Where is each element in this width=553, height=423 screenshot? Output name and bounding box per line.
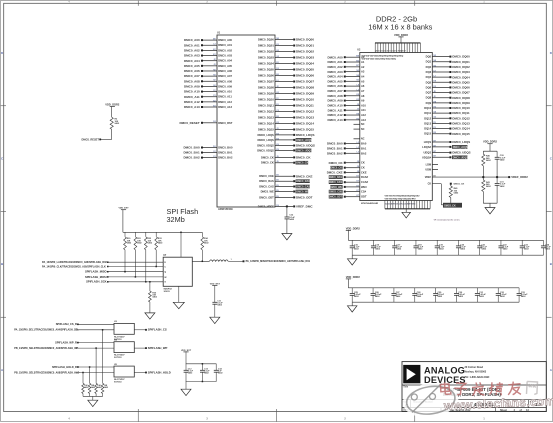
power flag VDD_DDR2 for cap row xyxy=(346,226,361,240)
wire cap row top rail xyxy=(348,287,519,289)
wire DMC0_A03 xyxy=(184,54,233,58)
svg-text:G3: G3 xyxy=(213,85,216,87)
svg-text:DMC0_A08: DMC0_A08 xyxy=(218,79,232,83)
wire DMC0_A02 xyxy=(184,48,233,52)
svg-text:LDQS: LDQS xyxy=(424,140,432,144)
svg-text:A9: A9 xyxy=(433,174,435,177)
svg-text:DMC0_LDQS: DMC0_LDQS xyxy=(258,133,275,137)
svg-text:VREF: VREF xyxy=(425,176,432,179)
capacitor C24 0.1uF xyxy=(541,240,551,255)
svg-text:DMC0_DQ08: DMC0_DQ08 xyxy=(452,96,470,100)
svg-text:DMC0_A11: DMC0_A11 xyxy=(328,108,343,112)
wire cap group bottom rail xyxy=(186,381,217,389)
svg-text:DMC0_A06: DMC0_A06 xyxy=(218,69,232,73)
svg-text:D3: D3 xyxy=(213,146,215,148)
svg-text:DMC0_CKE: DMC0_CKE xyxy=(327,171,343,175)
svg-text:K2: K2 xyxy=(213,49,215,51)
wire DMC0_A01 to U2 xyxy=(327,60,364,64)
svg-text:DQ12: DQ12 xyxy=(424,116,431,120)
svg-text:SOT353: SOT353 xyxy=(114,382,122,384)
svg-text:DMC0_DQ11: DMC0_DQ11 xyxy=(296,104,314,108)
svg-text:VREF_DMC: VREF_DMC xyxy=(296,205,313,209)
svg-text:DMC0_BA1: DMC0_BA1 xyxy=(327,147,343,151)
IC U5 buffer NL17SZ07 xyxy=(114,364,134,384)
node DMC0_CK# label xyxy=(443,203,462,208)
svg-text:DMC0_A10: DMC0_A10 xyxy=(327,104,342,108)
power flag VDD_DDR2 for reset pullup xyxy=(105,102,120,117)
wire DMC0_A12 xyxy=(184,100,233,104)
svg-text:VDD_DDR2: VDD_DDR2 xyxy=(394,33,409,37)
svg-text:F2: F2 xyxy=(276,98,278,100)
resistor R39 10K pulldown xyxy=(101,383,108,396)
wire VSS bar on U2 bottom xyxy=(385,201,430,213)
svg-text:DQ4: DQ4 xyxy=(426,75,432,79)
svg-text:F3: F3 xyxy=(213,95,215,97)
svg-text:SPIFLASH_MISO: SPIFLASH_MISO xyxy=(85,270,107,274)
svg-text:BA0: BA0 xyxy=(361,142,367,146)
svg-text:L2: L2 xyxy=(357,147,359,149)
capacitor C31 0.01uF xyxy=(475,288,487,302)
svg-text:DMC0_DQ05: DMC0_DQ05 xyxy=(452,80,470,84)
svg-text:DMC0_A06: DMC0_A06 xyxy=(327,84,342,88)
svg-text:DMC0_LDQS: DMC0_LDQS xyxy=(296,139,312,142)
wire DMC0_DQ05 xyxy=(258,68,314,72)
svg-text:20 Cotton Road: 20 Cotton Road xyxy=(465,366,484,369)
ground under C11 xyxy=(210,317,220,323)
svg-text:DMC0_BA2: DMC0_BA2 xyxy=(327,151,343,155)
svg-text:DMC0_A08: DMC0_A08 xyxy=(327,94,342,98)
svg-text:DMC0_RST: DMC0_RST xyxy=(218,121,233,125)
capacitor C19 0.1uF xyxy=(435,240,445,255)
wire DMC0_BA1 to U2 xyxy=(327,146,367,150)
svg-text:M7: M7 xyxy=(356,65,359,67)
svg-text:VDD_DDR2: VDD_DDR2 xyxy=(346,226,361,230)
svg-text:DMC0_A03: DMC0_A03 xyxy=(218,54,232,58)
svg-text:K3: K3 xyxy=(213,54,215,56)
wire DMC0_A00 to U2 xyxy=(327,55,364,59)
wire DMC0_LDQS xyxy=(258,133,315,137)
svg-text:N3: N3 xyxy=(434,65,436,67)
wire DMC0_DQ11 to U2 xyxy=(424,111,470,115)
svg-text:SPIFLASH_HOLD_R: SPIFLASH_HOLD_R xyxy=(52,365,77,369)
svg-text:K7: K7 xyxy=(356,176,358,178)
svg-text:DMC0_RAS: DMC0_RAS xyxy=(259,179,274,183)
ground under pulldowns xyxy=(88,400,98,406)
capacitor C23 0.1uF xyxy=(520,240,530,255)
svg-text:DMC0_BA2: DMC0_BA2 xyxy=(218,156,233,160)
svg-text:H3: H3 xyxy=(213,75,215,77)
svg-text:K8: K8 xyxy=(356,94,358,96)
wire SPIFLASH_MOSI xyxy=(85,275,167,279)
svg-text:J8: J8 xyxy=(357,166,359,168)
wire DMC0_DQ08 to U2 xyxy=(426,96,470,100)
svg-text:DMC0_A13: DMC0_A13 xyxy=(184,105,200,109)
svg-text:0402: 0402 xyxy=(104,386,108,389)
svg-text:SOIC8: SOIC8 xyxy=(164,291,171,293)
capacitor C29 0.01uF xyxy=(433,288,445,302)
wire DMC0_UDQS# xyxy=(257,148,312,152)
svg-text:J9: J9 xyxy=(276,156,278,158)
capacitor C16 0.1uF xyxy=(371,240,381,255)
svg-text:CS#: CS# xyxy=(361,190,367,194)
wire DMC0_A10 to U2 xyxy=(327,103,366,107)
svg-text:DMC0_DQ04: DMC0_DQ04 xyxy=(452,75,470,79)
svg-text:DMC0_UDQS: DMC0_UDQS xyxy=(257,148,274,152)
svg-text:NC: NC xyxy=(361,123,365,126)
svg-text:H2: H2 xyxy=(276,50,278,52)
capacitor C28 0.01uF xyxy=(412,288,424,302)
svg-text:DMC0_BA0: DMC0_BA0 xyxy=(184,146,201,150)
wire DMC0_DQ01 xyxy=(258,44,314,48)
svg-text:DMC0_A02: DMC0_A02 xyxy=(218,48,232,52)
svg-text:PA_15/SPI0_SEL1/TRACE01/SMC0_A: PA_15/SPI0_SEL1/TRACE01/SMC0_A04/SPIFLAS… xyxy=(14,329,79,332)
wire DMC0_A07 to U2 xyxy=(327,89,364,93)
capacitor C20 0.1uF xyxy=(456,240,466,255)
svg-text:DMC0_DQ03: DMC0_DQ03 xyxy=(452,70,470,74)
svg-text:A2: A2 xyxy=(361,65,365,69)
wire DMC0_CKE xyxy=(259,174,312,178)
svg-text:DMC0_UDQS: DMC0_UDQS xyxy=(452,151,470,155)
svg-text:DMC0_DQ14: DMC0_DQ14 xyxy=(452,127,470,131)
svg-text:N3: N3 xyxy=(356,80,358,82)
wire DMC0_DQ06 to U2 xyxy=(426,85,470,89)
ground under divider xyxy=(485,208,495,214)
svg-text:PB_15/SPI0_SEL3/TRACE05/SMC0_A: PB_15/SPI0_SEL3/TRACE05/SMC0_A08/SPIFLAS… xyxy=(14,371,79,374)
svg-text:DMC0_CKE: DMC0_CKE xyxy=(296,174,313,178)
svg-text:Title: Title xyxy=(403,386,408,389)
svg-text:A6: A6 xyxy=(361,84,365,88)
svg-text:E3: E3 xyxy=(213,105,215,107)
svg-text:DMC0_CK: DMC0_CK xyxy=(261,155,274,159)
svg-text:DQ7: DQ7 xyxy=(426,91,432,95)
wire DMC0_WE# xyxy=(261,190,310,194)
svg-text:DMC0_CK: DMC0_CK xyxy=(296,162,308,165)
svg-text:A13: A13 xyxy=(361,118,366,122)
svg-text:G2: G2 xyxy=(434,117,437,119)
svg-text:DMC0_CS0: DMC0_CS0 xyxy=(329,191,342,194)
svg-text:H8: H8 xyxy=(356,113,358,115)
svg-text:K7: K7 xyxy=(356,190,358,192)
svg-text:16M x 16 x 8 banks: 16M x 16 x 8 banks xyxy=(368,23,432,32)
svg-text:A9: A9 xyxy=(361,99,365,103)
svg-text:DMC0_DQ14: DMC0_DQ14 xyxy=(296,122,314,126)
wire divider top rail xyxy=(483,150,497,152)
svg-text:DMC0_DQ00: DMC0_DQ00 xyxy=(258,38,274,42)
svg-text:DMC0_WE: DMC0_WE xyxy=(330,186,342,189)
svg-text:DMC0_RESET: DMC0_RESET xyxy=(82,137,100,141)
wire SPIFLASH_D02 xyxy=(42,261,166,264)
svg-text:DMC0_DQ09: DMC0_DQ09 xyxy=(452,101,470,105)
wire DMC0_A12 to U2 xyxy=(327,113,366,117)
svg-text:PH: 1-800-ANALOGD: PH: 1-800-ANALOGD xyxy=(465,376,490,379)
svg-text:DMC0_A12: DMC0_A12 xyxy=(218,100,232,104)
watermark url www.elecfans.com xyxy=(443,394,553,413)
svg-text:DMC0_CK: DMC0_CK xyxy=(444,205,456,208)
wire pulldown bottom rail xyxy=(83,396,103,400)
wire SPIFLASH_SCK xyxy=(86,280,166,284)
wire DMC0_UDQS to U2 xyxy=(423,151,470,155)
svg-text:DMC0_RESET: DMC0_RESET xyxy=(180,121,200,125)
svg-text:DMC0_DQ02: DMC0_DQ02 xyxy=(296,50,314,54)
svg-text:PA_12/SPI0_MISO/TRACE04/SMC0_A: PA_12/SPI0_MISO/TRACE04/SMC0_A07/SPIFLAS… xyxy=(246,260,311,263)
svg-text:B2: B2 xyxy=(276,74,278,76)
svg-text:E9: E9 xyxy=(276,196,278,198)
ground under cap row xyxy=(347,306,357,312)
svg-text:DMC0_BA2: DMC0_BA2 xyxy=(184,156,201,160)
wire DMC0_ODT xyxy=(259,195,312,199)
svg-text:VDD_EXT: VDD_EXT xyxy=(118,208,129,210)
capacitor C30 0.1uF upper xyxy=(495,151,506,177)
note text xyxy=(434,218,461,221)
heading DDR2 - 2Gb xyxy=(368,14,432,31)
svg-text:DMC0_ODT: DMC0_ODT xyxy=(329,196,343,199)
svg-text:DMC0_DQ08: DMC0_DQ08 xyxy=(296,86,314,90)
ground under C12 xyxy=(282,234,292,240)
capacitor C26 0.01uF xyxy=(371,288,383,302)
resistor R40 240 upper xyxy=(482,151,492,177)
wire DMC0_DQ02 to U2 xyxy=(426,65,470,69)
svg-text:BA2: BA2 xyxy=(361,151,367,155)
svg-text:A10: A10 xyxy=(361,103,366,107)
wire DMC0_CK xyxy=(261,155,311,159)
svg-text:LDQS#: LDQS# xyxy=(422,145,431,149)
pin names VDD/VDDQ inside U2 top xyxy=(362,55,404,60)
svg-text:LDM: LDM xyxy=(426,164,431,167)
svg-text:DMC0_A02: DMC0_A02 xyxy=(184,48,200,52)
svg-text:DMC0_A05: DMC0_A05 xyxy=(218,64,232,68)
svg-text:K7: K7 xyxy=(356,195,358,197)
svg-text:DMC0_A05: DMC0_A05 xyxy=(184,64,200,68)
power flag VDD_DDR2 for U2 xyxy=(394,33,409,43)
svg-text:E9: E9 xyxy=(276,190,278,192)
svg-text:DMC0_A13: DMC0_A13 xyxy=(218,105,232,109)
wire DMC0_A03 to U2 xyxy=(327,70,364,74)
resistor R30 10K pullup xyxy=(124,232,132,250)
wire NC stub U2 left xyxy=(354,138,365,141)
svg-text:DMC0_A03: DMC0_A03 xyxy=(327,70,342,74)
wire DMC0_DQ01 to U2 xyxy=(426,60,470,64)
wire DMC0_DQ00 to U2 xyxy=(426,55,470,59)
svg-text:PA_13/SPI0_LADS/TRACE03/SMC0_A: PA_13/SPI0_LADS/TRACE03/SMC0_A06/SPIFLAS… xyxy=(42,261,107,264)
svg-text:DMC0_DQ00: DMC0_DQ00 xyxy=(452,55,470,59)
wire SPIFLASH_WP input xyxy=(14,347,114,350)
svg-text:DMC0_A04: DMC0_A04 xyxy=(218,59,232,63)
ground under U7 xyxy=(173,286,184,308)
svg-text:B7: B7 xyxy=(434,140,436,142)
svg-text:E9: E9 xyxy=(276,175,278,177)
svg-text:DMC0_A00: DMC0_A00 xyxy=(184,38,200,42)
capacitor C15 0.1uF xyxy=(350,240,360,255)
wire DMC0_CAS to U2 xyxy=(329,180,369,184)
svg-text:DMC0_RAS: DMC0_RAS xyxy=(296,180,310,183)
svg-text:T.P. terminated at the series: T.P. terminated at the series xyxy=(434,218,461,221)
wire DMC0_RESET xyxy=(180,120,233,125)
ground under cap row xyxy=(347,259,357,265)
IC U3 buffer NL17SZ07 xyxy=(114,321,134,341)
svg-text:E9: E9 xyxy=(276,180,278,182)
resistor R45 100 CK termination xyxy=(449,183,464,203)
svg-text:UDQS: UDQS xyxy=(423,151,431,155)
wire DMC0_A05 xyxy=(184,64,233,68)
svg-text:VDD_EXT: VDD_EXT xyxy=(181,350,192,352)
svg-text:DMC0_DQ07: DMC0_DQ07 xyxy=(452,91,470,95)
svg-text:ADSP-BF609: ADSP-BF609 xyxy=(218,208,233,211)
svg-text:DMC0_DQ10: DMC0_DQ10 xyxy=(452,106,470,110)
svg-text:K3: K3 xyxy=(276,44,278,46)
svg-text:DMC0_DQ01: DMC0_DQ01 xyxy=(258,44,274,48)
wire DMC0_RESET net xyxy=(82,137,112,141)
svg-text:E8: E8 xyxy=(434,132,436,134)
svg-text:UDM: UDM xyxy=(425,168,431,171)
svg-text:WE#: WE# xyxy=(361,185,367,189)
IC U1 ADSP-BF609 DDR controller xyxy=(217,32,275,212)
wire DMC0_CAS# xyxy=(259,185,310,189)
svg-text:DMC0_DQ11: DMC0_DQ11 xyxy=(452,111,470,115)
svg-text:DMC0_BA1: DMC0_BA1 xyxy=(218,151,233,155)
svg-text:DMC0_LDQS: DMC0_LDQS xyxy=(452,140,470,144)
svg-text:A7: A7 xyxy=(361,89,365,93)
wire stub U2 right xyxy=(425,168,438,171)
svg-text:VDD_EXT: VDD_EXT xyxy=(210,283,221,285)
svg-text:F2: F2 xyxy=(434,127,436,129)
svg-text:K7: K7 xyxy=(356,181,358,183)
svg-text:SPIFLASH_CS_R: SPIFLASH_CS_R xyxy=(56,322,77,326)
svg-text:DMC0_DQ06: DMC0_DQ06 xyxy=(258,74,274,78)
resistor R2 10K reset pullup xyxy=(110,117,120,139)
svg-text:J2: J2 xyxy=(213,59,215,61)
resistor R32 10K pullup xyxy=(144,232,152,250)
svg-text:DMC0_CAS: DMC0_CAS xyxy=(296,186,310,189)
svg-text:DMC0_DQ03: DMC0_DQ03 xyxy=(258,56,274,60)
wire DMC0_DQ03 xyxy=(258,56,314,60)
svg-text:SPIFLASH_CS: SPIFLASH_CS xyxy=(148,328,167,332)
wire DMC0_DQ10 to U2 xyxy=(424,106,470,110)
svg-text:DMC0_DQ09: DMC0_DQ09 xyxy=(258,92,274,96)
svg-text:CK: CK xyxy=(361,166,365,170)
wire DMC0_DQ08 xyxy=(258,86,314,90)
wire DMC0_RAS# xyxy=(259,179,310,183)
capacitor C18 0.1uF xyxy=(413,240,423,255)
svg-text:SOT353: SOT353 xyxy=(114,357,122,359)
svg-text:DMC0_A06: DMC0_A06 xyxy=(184,69,200,73)
svg-text:J8: J8 xyxy=(357,161,359,163)
svg-text:DMC0_UDQS: DMC0_UDQS xyxy=(257,144,274,148)
wire divider bottom rail xyxy=(483,203,497,207)
svg-text:NC: NC xyxy=(361,128,365,131)
svg-text:H3: H3 xyxy=(434,106,436,108)
power flag VDD_DDR2 for divider xyxy=(483,140,498,152)
heading SPI Flash 32Mb xyxy=(167,207,199,224)
svg-text:DMC0_RAS: DMC0_RAS xyxy=(329,176,343,179)
svg-text:DMC0_UDQS: DMC0_UDQS xyxy=(296,144,315,148)
svg-text:VSS VSS VSSQ VSSQ VSSQ DNU RFU: VSS VSS VSSQ VSSQ VSSQ DNU RFU xyxy=(385,199,417,201)
svg-text:DMC0_DQ07: DMC0_DQ07 xyxy=(258,80,274,84)
wire cap row bottom rail xyxy=(352,255,543,259)
svg-text:DMC0_A01: DMC0_A01 xyxy=(184,43,200,47)
svg-text:1: 1 xyxy=(231,259,232,261)
svg-text:CAS#: CAS# xyxy=(361,180,369,184)
svg-text:DMC0_DQ12: DMC0_DQ12 xyxy=(452,116,470,120)
svg-text:G2: G2 xyxy=(213,80,216,82)
svg-text:C3: C3 xyxy=(213,156,215,158)
IC U4 buffer NL17SZ07 xyxy=(114,339,134,360)
svg-text:A12: A12 xyxy=(361,113,366,117)
svg-text:J8: J8 xyxy=(434,91,436,93)
capacitor C25 0.01uF xyxy=(350,288,362,302)
wire DMC0_UDQS xyxy=(257,144,315,148)
wire DMC0_CK# xyxy=(261,161,309,165)
power flag VDD_EXT for C11 xyxy=(210,283,221,302)
wire DMC0_DQ09 xyxy=(258,92,314,96)
date and sheet xyxy=(403,409,529,412)
wire DMC0_A08 xyxy=(184,79,233,83)
wire SPIFLASH_MISO xyxy=(85,270,166,274)
svg-text:DMC0_DQ05: DMC0_DQ05 xyxy=(296,68,314,72)
svg-text:DMC0_DQ08: DMC0_DQ08 xyxy=(258,86,274,90)
svg-text:DMC0_UDQS: DMC0_UDQS xyxy=(296,149,312,152)
svg-text:DMC0_LDQS: DMC0_LDQS xyxy=(453,146,468,149)
wire NC stub U2 left xyxy=(354,123,365,126)
resistor R41 240 lower xyxy=(482,177,492,203)
svg-text:DMC0_A03: DMC0_A03 xyxy=(184,54,200,58)
svg-text:DMC0_A07: DMC0_A07 xyxy=(184,74,200,78)
svg-text:DMC0_VREF: DMC0_VREF xyxy=(258,204,274,208)
wire DMC0_DQ02 xyxy=(258,50,314,54)
capacitor C21 0.1uF xyxy=(477,240,487,255)
wire DMC0_DQ09 to U2 xyxy=(426,101,470,105)
svg-text:E2: E2 xyxy=(213,100,215,102)
wire DMC0_DQ11 xyxy=(258,104,314,108)
svg-text:32Mb: 32Mb xyxy=(167,215,185,224)
svg-text:0402: 0402 xyxy=(91,386,95,389)
capacitor C30 0.01uF xyxy=(454,288,466,302)
wire DMC0_ODT to U2 xyxy=(329,195,367,199)
power flag VDD_DDR2 for cap row xyxy=(346,275,361,288)
svg-text:SPIFLASH_MOSI: SPIFLASH_MOSI xyxy=(85,275,107,279)
ground under cap group xyxy=(181,389,191,395)
svg-text:B7: B7 xyxy=(434,151,436,153)
wire NC stub U2 left xyxy=(354,128,365,131)
capacitor C14 1uF xyxy=(214,364,224,382)
wire DMC0_DQ14 to U2 xyxy=(424,127,470,131)
svg-text:DMC0_A11: DMC0_A11 xyxy=(184,95,200,99)
svg-text:D3: D3 xyxy=(276,68,278,70)
svg-text:DQ9: DQ9 xyxy=(426,101,432,105)
svg-text:DMC0_A13: DMC0_A13 xyxy=(327,118,342,122)
svg-text:L2: L2 xyxy=(357,142,359,144)
svg-text:K7: K7 xyxy=(356,185,358,187)
wire DMC0_A04 xyxy=(184,59,233,63)
svg-text:DMC0_WE: DMC0_WE xyxy=(261,190,274,194)
wire SPIFLASH_HOLD output xyxy=(134,370,170,374)
svg-text:VDD_DDR2: VDD_DDR2 xyxy=(346,275,361,279)
svg-text:M3: M3 xyxy=(213,39,216,41)
svg-text:DMC0_DQ06: DMC0_DQ06 xyxy=(296,74,314,78)
svg-text:H2: H2 xyxy=(213,69,215,71)
svg-text:DQ11: DQ11 xyxy=(424,111,431,115)
svg-text:K3: K3 xyxy=(356,99,358,101)
svg-text:ODT: ODT xyxy=(361,195,367,199)
svg-text:DQ2: DQ2 xyxy=(426,65,432,69)
capacitor C17 0.1uF xyxy=(392,240,402,255)
svg-text:J3: J3 xyxy=(213,64,215,66)
svg-text:L2: L2 xyxy=(357,89,359,91)
wire DMC0_BA2 xyxy=(184,156,233,160)
svg-text:A11: A11 xyxy=(361,108,366,112)
wire DMC0_CK# to U2 xyxy=(330,166,365,170)
svg-text:DMC0_DQ09: DMC0_DQ09 xyxy=(296,92,314,96)
svg-text:DMC0_A09: DMC0_A09 xyxy=(327,99,342,103)
